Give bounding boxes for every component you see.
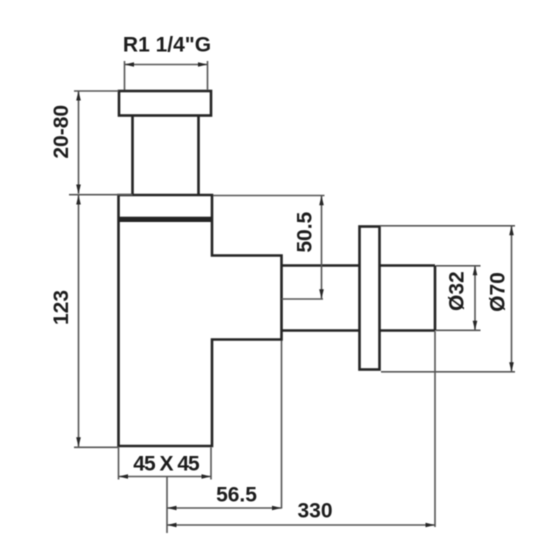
svg-text:45 X 45: 45 X 45 [133, 453, 200, 476]
outlet pipe top wall (body to flange) [282, 264, 360, 267]
gasket seal bar [119, 217, 213, 222]
dim 20-80: dimension line [78, 92, 80, 194]
dim 330: dimension line [167, 524, 435, 526]
arrowhead R1 right [198, 62, 208, 67]
arrowhead 56.5 right [272, 506, 282, 511]
outlet pipe top wall (flange to end) [380, 264, 436, 267]
dim 45x45: left extension line [118, 448, 120, 480]
dim 56.5: right extension line (arm edge) [281, 341, 283, 509]
dim 50.5: bottom extension line [282, 298, 324, 300]
svg-text:Ø70: Ø70 [487, 272, 510, 312]
arrowhead 56.5 left [167, 506, 177, 511]
arrowhead 123 top [76, 195, 81, 205]
arrowhead O70 bottom [509, 362, 514, 372]
dim R1 1/4G: extension line left [124, 61, 126, 90]
svg-text:R1 1/4"G: R1 1/4"G [123, 34, 211, 57]
arrowhead 123 bottom [76, 437, 81, 447]
dim 45x45: right extension line [210, 448, 212, 480]
arrowhead R1 left [125, 62, 135, 67]
dim 123: bottom extension line [74, 446, 119, 448]
arrowhead 50.5 top [319, 196, 324, 206]
svg-text:20-80: 20-80 [50, 105, 73, 159]
dim R1 1/4G: dimension line [125, 64, 208, 66]
dim 50.5: dimension line [321, 196, 323, 299]
arrowhead O32 top [473, 266, 478, 276]
dim 50.5: top extension line [213, 195, 325, 197]
dim 20-80 / 123: middle extension line [69, 194, 133, 196]
dim 56.5: dimension line [167, 507, 282, 509]
dim 20-80: top extension line [74, 90, 119, 92]
svg-text:Ø32: Ø32 [446, 271, 469, 311]
arrowhead 45x45 right [202, 474, 212, 479]
dim O70: top extension line [380, 225, 515, 227]
arrowhead 20-80 top [76, 91, 81, 101]
dim O32: dimension line [474, 266, 476, 330]
arrowhead O32 bottom [473, 321, 478, 331]
centre line of body outlet [166, 477, 168, 534]
outlet pipe bottom wall (flange to end) [380, 329, 436, 332]
arrowhead 45x45 left [119, 474, 129, 479]
outlet pipe end [434, 266, 437, 331]
trap body outline with outlet arm [119, 195, 282, 446]
arrowhead 20-80 bottom [76, 185, 81, 195]
svg-text:330: 330 [297, 500, 332, 523]
arrowhead 330 left [167, 523, 177, 528]
dim 330: right extension line (pipe end) [434, 331, 436, 527]
dim O70: bottom extension line [381, 371, 515, 373]
wall flange [360, 227, 380, 370]
dim O70: dimension line [511, 226, 513, 372]
svg-text:123: 123 [50, 290, 73, 325]
arrowhead 50.5 bottom [319, 289, 324, 299]
dim R1 1/4G: extension line right [207, 61, 209, 90]
inlet pipe left wall [131, 116, 134, 196]
svg-text:50.5: 50.5 [294, 211, 317, 252]
dim 45x45: dimension line [119, 476, 212, 478]
dim 123: dimension line [78, 196, 80, 447]
outlet pipe bottom wall (body to flange) [282, 329, 360, 332]
arrowhead 330 right [426, 523, 436, 528]
svg-text:56.5: 56.5 [216, 484, 257, 507]
inlet pipe right wall [197, 116, 200, 196]
dim O32: bottom extension line [436, 329, 481, 331]
cap nut (top flange of telescopic inlet) [119, 91, 211, 116]
arrowhead O70 top [509, 226, 514, 236]
dim O32: top extension line [436, 265, 481, 267]
